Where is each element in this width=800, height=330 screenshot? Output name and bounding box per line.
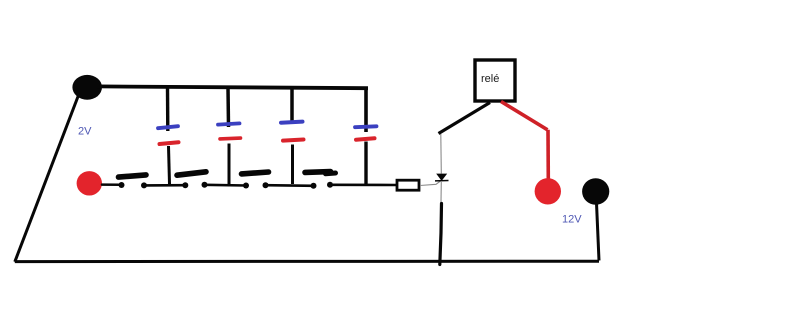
node 12V negative (black dot, right) (582, 178, 609, 205)
capacitor C4 bottom lead (364, 142, 367, 185)
svg-text:relé: relé (481, 73, 499, 85)
wire bus segment S1 to S2 (144, 184, 185, 187)
capacitor C4 top lead (364, 89, 368, 132)
wire left diagonal from black node to bottom-left corner (15, 97, 78, 262)
capacitor C1 bottom lead (169, 146, 170, 184)
resistor R1 (397, 180, 419, 190)
svg-text:2V: 2V (78, 126, 92, 138)
node dot right contact S2 (202, 182, 208, 188)
wire bottom bus (15, 260, 599, 263)
diode D1 cathode bar (435, 180, 449, 182)
node 12V positive (red dot, right) (535, 178, 561, 204)
node dot left contact S3 (243, 183, 249, 189)
node dot right contact S1 (141, 182, 147, 188)
node dot right contact S3 (263, 182, 269, 188)
wire black from relay to diode line (439, 103, 491, 134)
capacitor C2 blue plate (218, 123, 240, 124)
svg-text:12V: 12V (562, 213, 582, 225)
node battery positive terminal (black dot, top-left) (72, 75, 102, 100)
node dot right contact S4 (327, 182, 333, 188)
switch S4 blade (305, 169, 331, 175)
capacitor C1 top lead (166, 88, 170, 131)
wire red vertical to red node (546, 130, 550, 179)
node battery negative terminal (red dot, left) (77, 171, 102, 195)
wire top bus from black node to C4 (97, 86, 368, 88)
wire from red node to switch S1 (102, 183, 122, 186)
wire thin above diode (440, 134, 443, 174)
wire bus segment S2 to S3 (205, 184, 247, 187)
relay box U1 (475, 60, 515, 101)
switch S1 blade (119, 175, 147, 177)
wire thin from R1 to diode node (420, 181, 441, 186)
capacitor C3 top lead (290, 88, 294, 121)
capacitor C1 red plate (160, 142, 179, 144)
capacitor C2 bottom lead (228, 144, 231, 185)
switch S4 blade overlap stroke (326, 171, 336, 177)
capacitor C2 top lead (226, 88, 230, 127)
wire thin below diode (440, 181, 442, 202)
wire bus segment S4 to resistor (330, 184, 396, 187)
node dot left contact S2 (182, 182, 188, 188)
capacitor C4 red plate (356, 138, 375, 139)
wire from right black node to bottom bus (597, 203, 600, 261)
wire red from relay diagonal (501, 102, 548, 130)
capacitor C2 red plate (220, 136, 241, 140)
switch S2 blade (177, 172, 206, 175)
capacitor C3 blue plate (281, 122, 303, 123)
node dot left contact S1 (119, 182, 125, 188)
node dot left contact S4 (311, 183, 317, 189)
capacitor C3 bottom lead (291, 145, 294, 185)
capacitor C4 blue plate (355, 124, 377, 129)
capacitor C3 red plate (283, 140, 304, 141)
wire bus segment S3 to S4 (266, 184, 314, 187)
wire thick from diode node to bottom bus (440, 204, 442, 265)
diode D1 (points down) (436, 174, 447, 181)
capacitor C1 blue plate (158, 126, 178, 128)
switch S3 blade (242, 172, 269, 174)
